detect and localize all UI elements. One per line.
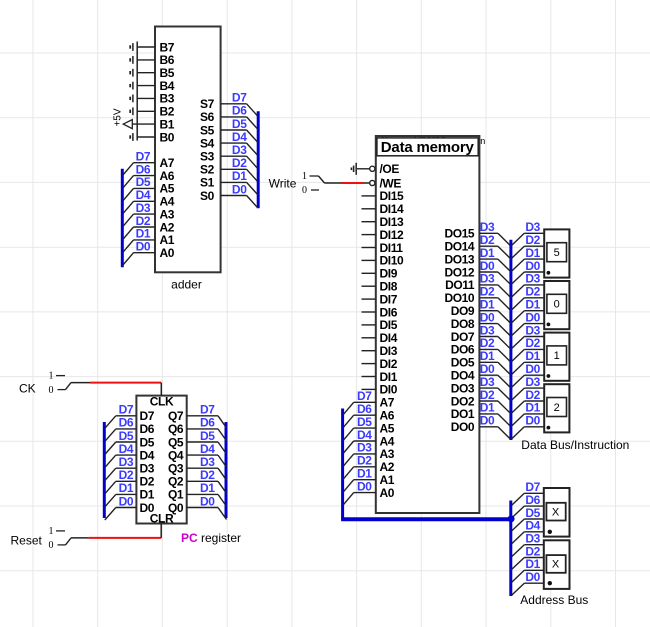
svg-text:0: 0 [49,540,54,551]
svg-text:D3: D3 [480,375,495,389]
svg-text:D2: D2 [232,156,247,170]
svg-text:DO7: DO7 [451,330,475,344]
svg-text:DO14: DO14 [444,240,474,254]
svg-text:DI14: DI14 [380,202,404,216]
svg-text:D6: D6 [200,416,215,430]
svg-text:Q6: Q6 [168,422,184,436]
svg-text:DO10: DO10 [444,291,474,305]
svg-text:B1: B1 [160,117,175,131]
svg-text:D0: D0 [119,494,134,508]
svg-text:CLK: CLK [150,395,174,409]
svg-text:A4: A4 [380,434,395,448]
svg-text:A2: A2 [380,460,395,474]
svg-text:A7: A7 [380,396,395,410]
svg-text:D5: D5 [140,435,155,449]
svg-text:D4: D4 [232,130,247,144]
svg-text:D3: D3 [525,272,540,286]
svg-text:DO2: DO2 [451,394,475,408]
svg-text:D3: D3 [525,375,540,389]
svg-text:D1: D1 [525,557,540,571]
svg-text:D0: D0 [525,570,540,584]
svg-text:D1: D1 [525,246,540,260]
svg-text:B3: B3 [160,92,175,106]
svg-text:DI9: DI9 [380,267,398,281]
svg-text:D6: D6 [232,104,247,118]
svg-text:DI6: DI6 [380,305,398,319]
svg-text:D1: D1 [140,488,155,502]
svg-text:DI13: DI13 [380,215,404,229]
svg-text:B0: B0 [160,130,175,144]
svg-text:D2: D2 [357,454,372,468]
svg-text:DO12: DO12 [444,265,474,279]
svg-text:D4: D4 [140,448,155,462]
svg-text:0: 0 [302,185,307,196]
svg-text:CK: CK [19,382,36,396]
svg-text:DI15: DI15 [380,189,404,203]
svg-text:S3: S3 [200,150,215,164]
svg-text:A0: A0 [160,246,175,260]
svg-text:D0: D0 [357,479,372,493]
svg-text:DI1: DI1 [380,370,398,384]
svg-text:D1: D1 [525,349,540,363]
svg-text:D7: D7 [232,91,247,105]
svg-text:D3: D3 [200,455,215,469]
svg-text:+5V: +5V [113,108,124,126]
svg-text:5: 5 [554,247,560,259]
svg-text:D5: D5 [136,175,151,189]
svg-text:D5: D5 [119,429,134,443]
svg-text:Address Bus: Address Bus [520,593,588,607]
svg-text:Q4: Q4 [168,448,184,462]
svg-text:B5: B5 [160,66,175,80]
svg-text:D0: D0 [525,362,540,376]
svg-text:D7: D7 [136,150,151,164]
svg-text:X: X [552,559,560,571]
svg-text:DI11: DI11 [380,241,404,255]
svg-text:S6: S6 [200,110,215,124]
svg-text:D2: D2 [480,388,495,402]
svg-text:D1: D1 [480,349,495,363]
svg-text:D3: D3 [480,272,495,286]
svg-text:D1: D1 [200,481,215,495]
svg-text:D0: D0 [140,501,155,515]
svg-text:DI8: DI8 [380,280,398,294]
svg-text:DO5: DO5 [451,356,475,370]
svg-text:2: 2 [554,402,560,414]
svg-text:D6: D6 [525,493,540,507]
svg-text:S2: S2 [200,163,215,177]
svg-text:DO15: DO15 [444,227,474,241]
svg-text:Data memory: Data memory [381,139,475,156]
svg-text:S7: S7 [200,97,215,111]
svg-text:A7: A7 [160,156,175,170]
svg-text:D7: D7 [140,409,155,423]
svg-text:D7: D7 [119,403,134,417]
svg-text:/WE: /WE [380,176,402,190]
svg-text:A0: A0 [380,486,395,500]
svg-text:D5: D5 [357,415,372,429]
svg-text:A3: A3 [160,207,175,221]
svg-text:D3: D3 [525,323,540,337]
svg-text:0: 0 [554,299,560,311]
svg-text:1: 1 [49,526,54,537]
svg-text:D1: D1 [232,169,247,183]
svg-text:DO3: DO3 [451,381,475,395]
svg-text:D0: D0 [480,310,495,324]
svg-text:S5: S5 [200,123,215,137]
svg-text:DI0: DI0 [380,383,398,397]
svg-text:/OE: /OE [380,162,400,176]
svg-text:D0: D0 [525,414,540,428]
svg-text:D3: D3 [357,441,372,455]
svg-text:DO4: DO4 [451,369,475,383]
svg-text:DO8: DO8 [451,317,475,331]
svg-text:DI2: DI2 [380,357,398,371]
svg-text:Q7: Q7 [168,409,184,423]
svg-text:D0: D0 [232,182,247,196]
svg-text:0: 0 [49,385,54,396]
svg-text:A5: A5 [160,182,175,196]
svg-text:Data Bus/Instruction: Data Bus/Instruction [521,438,629,452]
svg-text:DI4: DI4 [380,331,398,345]
svg-text:D4: D4 [200,442,215,456]
svg-text:D0: D0 [480,414,495,428]
svg-text:D2: D2 [480,233,495,247]
svg-text:D2: D2 [200,468,215,482]
svg-text:D5: D5 [232,117,247,131]
svg-text:D2: D2 [525,233,540,247]
svg-text:DO0: DO0 [451,420,475,434]
svg-text:D3: D3 [119,455,134,469]
svg-text:D2: D2 [140,475,155,489]
svg-text:B7: B7 [160,40,175,54]
svg-text:S0: S0 [200,189,215,203]
svg-text:DI12: DI12 [380,228,404,242]
svg-text:D0: D0 [525,259,540,273]
svg-text:A2: A2 [160,220,175,234]
svg-text:DO6: DO6 [451,343,475,357]
svg-text:1: 1 [302,171,307,182]
svg-text:D3: D3 [232,143,247,157]
svg-text:S4: S4 [200,136,215,150]
svg-text:D3: D3 [136,201,151,215]
svg-text:1: 1 [554,350,560,362]
svg-text:DI10: DI10 [380,254,404,268]
svg-text:A1: A1 [380,473,395,487]
svg-text:D2: D2 [136,214,151,228]
svg-text:D2: D2 [480,336,495,350]
svg-text:DO1: DO1 [451,407,475,421]
svg-text:Q2: Q2 [168,475,184,489]
svg-text:D1: D1 [525,401,540,415]
svg-text:D2: D2 [525,336,540,350]
svg-text:D1: D1 [119,481,134,495]
svg-text:D1: D1 [357,467,372,481]
svg-text:DO9: DO9 [451,304,475,318]
svg-text:D0: D0 [480,362,495,376]
svg-text:X: X [552,506,560,518]
svg-text:PC register: PC register [181,531,241,545]
svg-text:D0: D0 [136,240,151,254]
svg-text:D3: D3 [140,462,155,476]
svg-text:D4: D4 [525,519,540,533]
svg-text:D2: D2 [119,468,134,482]
svg-text:n: n [480,136,485,146]
svg-text:Reset: Reset [11,534,43,548]
svg-text:D0: D0 [200,494,215,508]
svg-text:D4: D4 [357,428,372,442]
svg-text:D7: D7 [357,389,372,403]
svg-text:Q5: Q5 [168,435,184,449]
svg-text:D3: D3 [525,220,540,234]
svg-text:D1: D1 [525,298,540,312]
svg-text:D6: D6 [140,422,155,436]
svg-text:1: 1 [49,371,54,382]
svg-text:Write: Write [269,177,297,191]
svg-text:D7: D7 [200,403,215,417]
svg-text:adder: adder [171,277,202,291]
svg-text:DO11: DO11 [445,278,475,292]
svg-text:DI3: DI3 [380,344,398,358]
svg-text:D0: D0 [480,259,495,273]
svg-text:A3: A3 [380,447,395,461]
svg-text:D2: D2 [480,285,495,299]
svg-text:D4: D4 [119,442,134,456]
svg-text:D1: D1 [480,298,495,312]
svg-text:D1: D1 [480,246,495,260]
svg-text:Q1: Q1 [168,488,184,502]
svg-text:D3: D3 [480,323,495,337]
svg-text:Q3: Q3 [168,462,184,476]
svg-text:Q0: Q0 [168,501,184,515]
svg-text:D6: D6 [119,416,134,430]
svg-text:D0: D0 [525,310,540,324]
svg-text:A6: A6 [380,409,395,423]
svg-text:A5: A5 [380,421,395,435]
svg-text:DI5: DI5 [380,318,398,332]
svg-text:D2: D2 [525,285,540,299]
svg-text:D5: D5 [200,429,215,443]
svg-text:DI7: DI7 [380,292,398,306]
svg-text:D3: D3 [480,220,495,234]
svg-text:DO13: DO13 [444,252,474,266]
svg-text:D6: D6 [357,402,372,416]
svg-text:S1: S1 [200,176,215,190]
svg-text:D2: D2 [525,388,540,402]
svg-text:D1: D1 [480,401,495,415]
